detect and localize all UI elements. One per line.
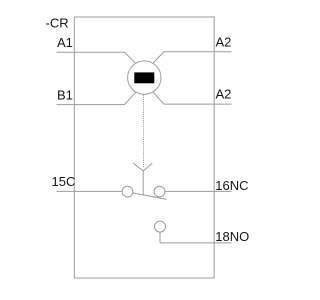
wire B1 — [57, 92, 137, 105]
svg-text:B1: B1 — [57, 88, 73, 103]
wire A1 — [57, 52, 137, 64]
mechanical linkage (dashed) — [143, 95, 145, 168]
svg-text:A1: A1 — [57, 35, 73, 50]
svg-text:A2: A2 — [216, 35, 232, 50]
wire 16NC — [165, 190, 232, 192]
svg-text:16NC: 16NC — [215, 178, 248, 193]
contact pivot terminal 15C (circle) — [122, 186, 133, 197]
svg-text:A2: A2 — [216, 87, 232, 102]
wire 18NO — [160, 242, 232, 244]
wire A2 top — [153, 52, 232, 64]
contact terminal 16NC (circle) — [154, 186, 165, 197]
actuator rod — [142, 171, 144, 195]
moving contact blade — [133, 193, 167, 200]
enclosure outline — [74, 17, 214, 278]
contact terminal 18NO (circle) — [155, 221, 166, 232]
svg-text:18NO: 18NO — [215, 229, 249, 244]
wire 18NO vertical — [159, 232, 161, 243]
relay coil core bar — [134, 72, 154, 83]
wire A2 bottom — [153, 92, 232, 104]
relay coil K (circle) — [128, 61, 161, 94]
wire 15C — [57, 190, 123, 192]
svg-text:15C: 15C — [52, 174, 76, 189]
svg-text:-CR: -CR — [46, 16, 69, 31]
actuator arrow head — [133, 163, 152, 171]
